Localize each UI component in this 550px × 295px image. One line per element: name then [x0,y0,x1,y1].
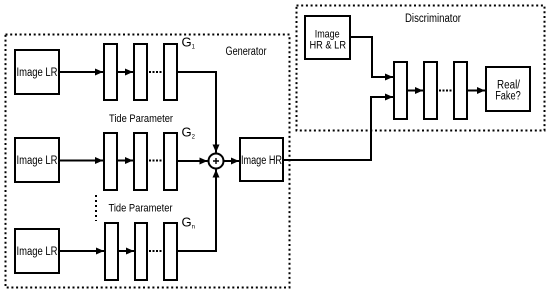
box Image LR row2 [15,138,59,182]
adder plus sign [213,158,219,164]
dotted ellipsis row3 [149,250,163,252]
dotted ellipsis row1 [149,71,163,73]
svg-text:HR & LR: HR & LR [310,40,347,52]
svg-text:Discriminator: Discriminator [405,13,461,25]
svg-text:Image LR: Image LR [17,155,58,167]
bar row3 layer3 [164,223,177,280]
box Image LR row1 [15,50,59,94]
bar row2 layer2 [134,133,147,190]
svg-text:Generator: Generator [226,46,267,58]
wire Image HR and LR to discriminator bar1 [351,37,393,77]
bar row1 layer2 [134,44,147,100]
box Image HR and LR [305,16,350,59]
wire arrow row3 bar1 to bar2 [119,250,134,252]
adder circle [209,154,224,169]
bar row3 layer2 [135,223,147,280]
wire Gn output to adder [178,170,216,252]
bar row1 layer3 [164,44,177,100]
bar discriminator layer3 [454,62,467,119]
bar row2 layer1 [104,133,117,190]
svg-text:Image LR: Image LR [17,246,58,258]
bar row1 layer1 [104,44,117,100]
bar discriminator layer1 [394,62,407,119]
bar row2 layer3 [164,133,177,190]
wire Image HR to discriminator input2 [284,97,393,160]
wire arrow Image LR row3 to bar [59,250,104,252]
svg-text:Fake?: Fake? [495,91,521,103]
vertical dotted ellipsis between rows [95,195,97,221]
wire arrow Image LR row2 to bar [60,160,103,162]
dotted ellipsis discriminator [439,90,453,92]
bar row3 layer1 [105,223,118,280]
svg-text:Image LR: Image LR [17,67,58,79]
dotted ellipsis row2 [149,160,163,162]
box Image HR [240,138,283,181]
wire G1 output to adder [178,72,216,153]
svg-text:Tide Parameter: Tide Parameter [109,113,173,125]
wire arrow adder to Image HR [224,160,240,162]
wire arrow disc bar1 to bar2 [408,90,423,92]
discriminator dotted boundary [297,6,545,131]
wire arrow G2 output to adder [178,160,208,162]
box Image LR row3 [15,229,59,273]
wire arrow row2 bar1 to bar2 [118,160,133,162]
svg-text:Image HR: Image HR [241,155,282,167]
bar discriminator layer2 [424,62,437,119]
generator dotted boundary [6,35,290,288]
wire arrow row1 bar1 to bar2 [118,71,133,73]
wire arrow Image LR row1 to bar [60,71,103,73]
svg-text:Tide Parameter: Tide Parameter [109,203,173,215]
wire arrow disc bar3 to RealFake [468,90,485,92]
box Real Fake [486,67,530,111]
